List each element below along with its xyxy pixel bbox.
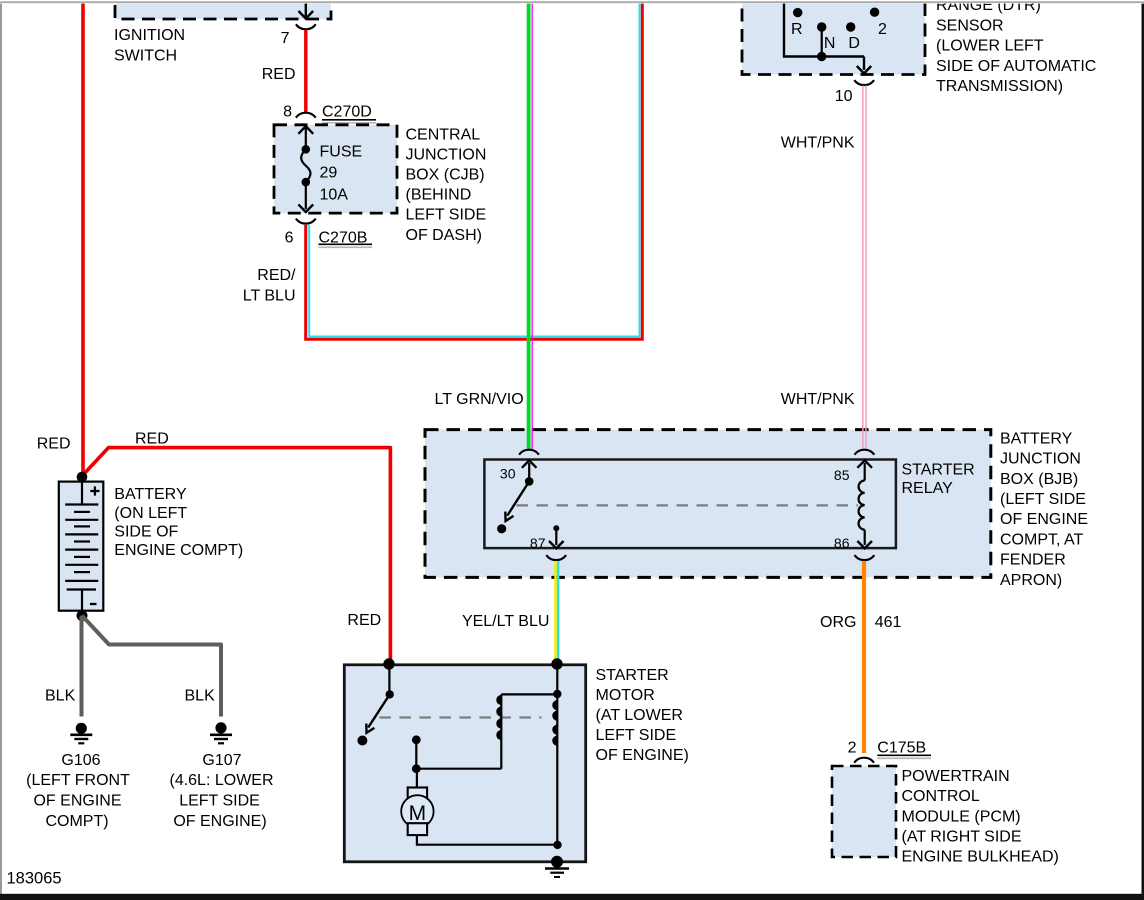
svg-text:OF ENGINE): OF ENGINE) [173, 813, 266, 830]
wire LT GRN/VIO to relay pin 30 [527, 0, 531, 450]
PCM pin 2 connector half [854, 758, 874, 763]
svg-text:G107: G107 [202, 752, 241, 769]
DTR contact R [793, 8, 802, 17]
ground junction node [553, 841, 561, 849]
svg-text:COMPT): COMPT) [45, 813, 108, 830]
svg-text:STARTER: STARTER [902, 461, 975, 478]
svg-text:MOTOR: MOTOR [596, 687, 655, 704]
solenoid winding junction node [553, 690, 561, 698]
svg-text:461: 461 [875, 614, 902, 631]
svg-text:D: D [848, 35, 860, 52]
svg-text:MODULE (PCM): MODULE (PCM) [902, 808, 1021, 825]
svg-text:FUSE: FUSE [320, 143, 363, 160]
svg-text:R: R [791, 21, 803, 38]
svg-text:BATTERY: BATTERY [1000, 430, 1073, 447]
svg-text:ENGINE BULKHEAD): ENGINE BULKHEAD) [902, 849, 1059, 866]
node motor RED terminal [383, 658, 394, 669]
solenoid feed wire [556, 664, 558, 845]
wire YEL/LT BLU relay 87 to starter motor [554, 561, 557, 660]
svg-text:TRANSMISSION): TRANSMISSION) [936, 78, 1063, 95]
battery [59, 482, 104, 611]
relay pin 86 connector half [855, 555, 875, 560]
wire RED battery to starter motor [82, 448, 390, 662]
svg-text:(AT LOWER: (AT LOWER [596, 707, 683, 724]
motor M1 [408, 788, 427, 800]
relay switch pivot node [525, 477, 534, 486]
DTR junction node [817, 52, 826, 61]
motor case ground [545, 867, 569, 869]
DTR contact N [817, 22, 826, 31]
svg-text:SIDE OF AUTOMATIC: SIDE OF AUTOMATIC [936, 58, 1096, 75]
svg-text:8: 8 [283, 104, 292, 121]
svg-text:M: M [409, 802, 427, 825]
svg-text:2: 2 [878, 21, 887, 38]
svg-text:183065: 183065 [7, 870, 62, 888]
svg-text:ENGINE COMPT): ENGINE COMPT) [114, 542, 243, 559]
svg-text:BOX (BJB): BOX (BJB) [1000, 471, 1078, 488]
pin 10 connector half [854, 80, 874, 85]
svg-text:(BEHIND: (BEHIND [406, 187, 472, 204]
motor switch feed wire [388, 664, 390, 694]
starter motor box [344, 665, 585, 862]
motor branch junction node [412, 764, 421, 773]
svg-text:JUNCTION: JUNCTION [1000, 451, 1081, 468]
svg-text:OF ENGINE: OF ENGINE [1000, 511, 1088, 528]
case ground node [551, 856, 563, 868]
page frame [0, 1, 1144, 3]
page top margin [0, 0, 1144, 4]
fuse F29 [302, 145, 311, 154]
svg-text:LEFT SIDE: LEFT SIDE [596, 727, 677, 744]
svg-text:RELAY: RELAY [902, 480, 954, 497]
relay mechanical dashed link [517, 504, 859, 506]
svg-text:G106: G106 [61, 752, 100, 769]
svg-text:N: N [824, 35, 836, 52]
ignition switch box [115, 0, 331, 19]
svg-text:29: 29 [320, 164, 338, 181]
svg-text:ORG: ORG [820, 614, 856, 631]
wire ORG relay 86 to PCM [862, 561, 866, 753]
svg-text:RED: RED [135, 431, 169, 448]
svg-text:LEFT SIDE: LEFT SIDE [179, 793, 260, 810]
motor mechanical dashed link [379, 716, 541, 718]
wire BLK to G107 [82, 616, 221, 717]
svg-text:SWITCH: SWITCH [114, 47, 177, 64]
svg-text:(LEFT SIDE: (LEFT SIDE [1000, 491, 1086, 508]
motor switch pivot node [386, 690, 394, 698]
svg-text:SENSOR: SENSOR [936, 17, 1004, 34]
CJB internal down arrow [305, 182, 307, 209]
wire LT GRN/VIO inside BJB [527, 427, 531, 450]
svg-text:LT GRN/VIO: LT GRN/VIO [434, 391, 523, 408]
svg-text:LEFT SIDE: LEFT SIDE [406, 207, 487, 224]
svg-text:YEL/LT BLU: YEL/LT BLU [462, 613, 549, 630]
CJB internal up arrow [305, 128, 307, 149]
relay pin 85 connector half [855, 450, 875, 455]
svg-text:LT BLU: LT BLU [243, 287, 296, 304]
svg-text:RED: RED [347, 612, 381, 629]
svg-text:86: 86 [834, 535, 850, 551]
wire WHT/PNK inside BJB [862, 427, 864, 449]
contact stub node [412, 735, 421, 744]
svg-text:C175B: C175B [877, 739, 926, 756]
svg-text:(LOWER LEFT: (LOWER LEFT [936, 37, 1044, 54]
ignition switch pin 7 arrow [305, 0, 307, 17]
svg-text:OF DASH): OF DASH) [406, 227, 482, 244]
svg-text:(AT RIGHT SIDE: (AT RIGHT SIDE [902, 829, 1022, 846]
node battery negative [77, 610, 88, 621]
powertrain control module PCM box [832, 766, 896, 857]
hold-in winding [553, 701, 557, 745]
svg-text:FENDER: FENDER [1000, 552, 1066, 569]
pull-in winding [500, 694, 502, 768]
svg-text:2: 2 [848, 739, 857, 756]
svg-text:(LEFT FRONT: (LEFT FRONT [26, 772, 130, 789]
svg-text:IGNITION: IGNITION [114, 27, 185, 44]
svg-text:30: 30 [500, 466, 516, 482]
wire RED ignition to CJB [304, 30, 307, 112]
relay coil [859, 481, 865, 530]
node motor YEL terminal [551, 658, 562, 669]
relay switch blade [507, 481, 529, 515]
svg-text:BLK: BLK [45, 688, 76, 705]
svg-text:POWERTRAIN: POWERTRAIN [902, 768, 1010, 785]
relay pin 87 connector half [546, 555, 566, 560]
pin 7 connector half [296, 24, 316, 29]
svg-text:STARTER: STARTER [596, 667, 669, 684]
svg-text:RED/: RED/ [257, 267, 296, 284]
motor switch blade [368, 694, 390, 727]
svg-text:(4.6L: LOWER: (4.6L: LOWER [169, 772, 273, 789]
wire junction to motor [416, 769, 418, 788]
wire RED battery feed [81, 0, 85, 475]
ground G106 [76, 723, 87, 734]
relay pin 87 arrow [555, 528, 557, 545]
ground G107 [215, 722, 226, 733]
wire BLK to G106 [80, 616, 84, 717]
svg-text:RED: RED [262, 66, 296, 83]
central junction box CJB [274, 125, 397, 213]
svg-text:10A: 10A [320, 187, 349, 204]
node battery positive [77, 472, 88, 483]
svg-text:10: 10 [835, 88, 853, 105]
motor switch contact node [357, 736, 367, 746]
svg-text:APRON): APRON) [1000, 572, 1062, 589]
winding bridge wire [501, 693, 557, 695]
svg-text:BOX (CJB): BOX (CJB) [406, 167, 485, 184]
pin 6 connector half [296, 219, 316, 224]
relay pin 87 node [553, 525, 559, 531]
winding to motor wire [416, 768, 501, 770]
DTR internal down arrow [863, 57, 865, 71]
DTR contact D [846, 22, 855, 31]
relay pin 85 arrow [864, 463, 866, 481]
contact stub wire [415, 740, 417, 769]
svg-text:OF ENGINE: OF ENGINE [33, 793, 121, 810]
svg-text:COMPT, AT: COMPT, AT [1000, 531, 1083, 548]
svg-text:RED: RED [37, 436, 71, 453]
relay pin 30 arrow [528, 463, 530, 481]
DTR contact 2 [870, 8, 879, 17]
wire WHT/PNK from DTR to relay pin 85 [862, 86, 864, 451]
svg-text:CENTRAL: CENTRAL [406, 126, 481, 143]
svg-text:WHT/PNK: WHT/PNK [781, 391, 855, 408]
svg-text:BLK: BLK [185, 688, 216, 705]
svg-text:(ON LEFT: (ON LEFT [114, 505, 187, 522]
starter relay box [484, 460, 896, 549]
svg-text:BATTERY: BATTERY [114, 486, 187, 503]
svg-text:WHT/PNK: WHT/PNK [781, 135, 855, 152]
svg-text:87: 87 [530, 535, 546, 551]
DTR internal wire [784, 0, 864, 57]
pin 8 connector half [296, 113, 316, 118]
relay pin 30 connector half [519, 450, 539, 455]
svg-text:SIDE OF: SIDE OF [114, 524, 178, 541]
relay pin 86 arrow [864, 530, 866, 545]
svg-text:CONTROL: CONTROL [902, 788, 980, 805]
motor to ground wire [417, 835, 558, 845]
svg-text:JUNCTION: JUNCTION [406, 146, 487, 163]
battery junction box BJB [425, 430, 991, 578]
svg-text:7: 7 [281, 30, 290, 47]
DTR sensor box [742, 0, 925, 75]
wire RED/LT BLU from pin 6 to top edge [306, 0, 643, 339]
relay contact node 87 [497, 524, 506, 533]
svg-text:6: 6 [285, 230, 294, 247]
svg-text:85: 85 [834, 467, 850, 483]
svg-text:C270D: C270D [322, 104, 372, 121]
svg-text:OF ENGINE): OF ENGINE) [596, 747, 689, 764]
